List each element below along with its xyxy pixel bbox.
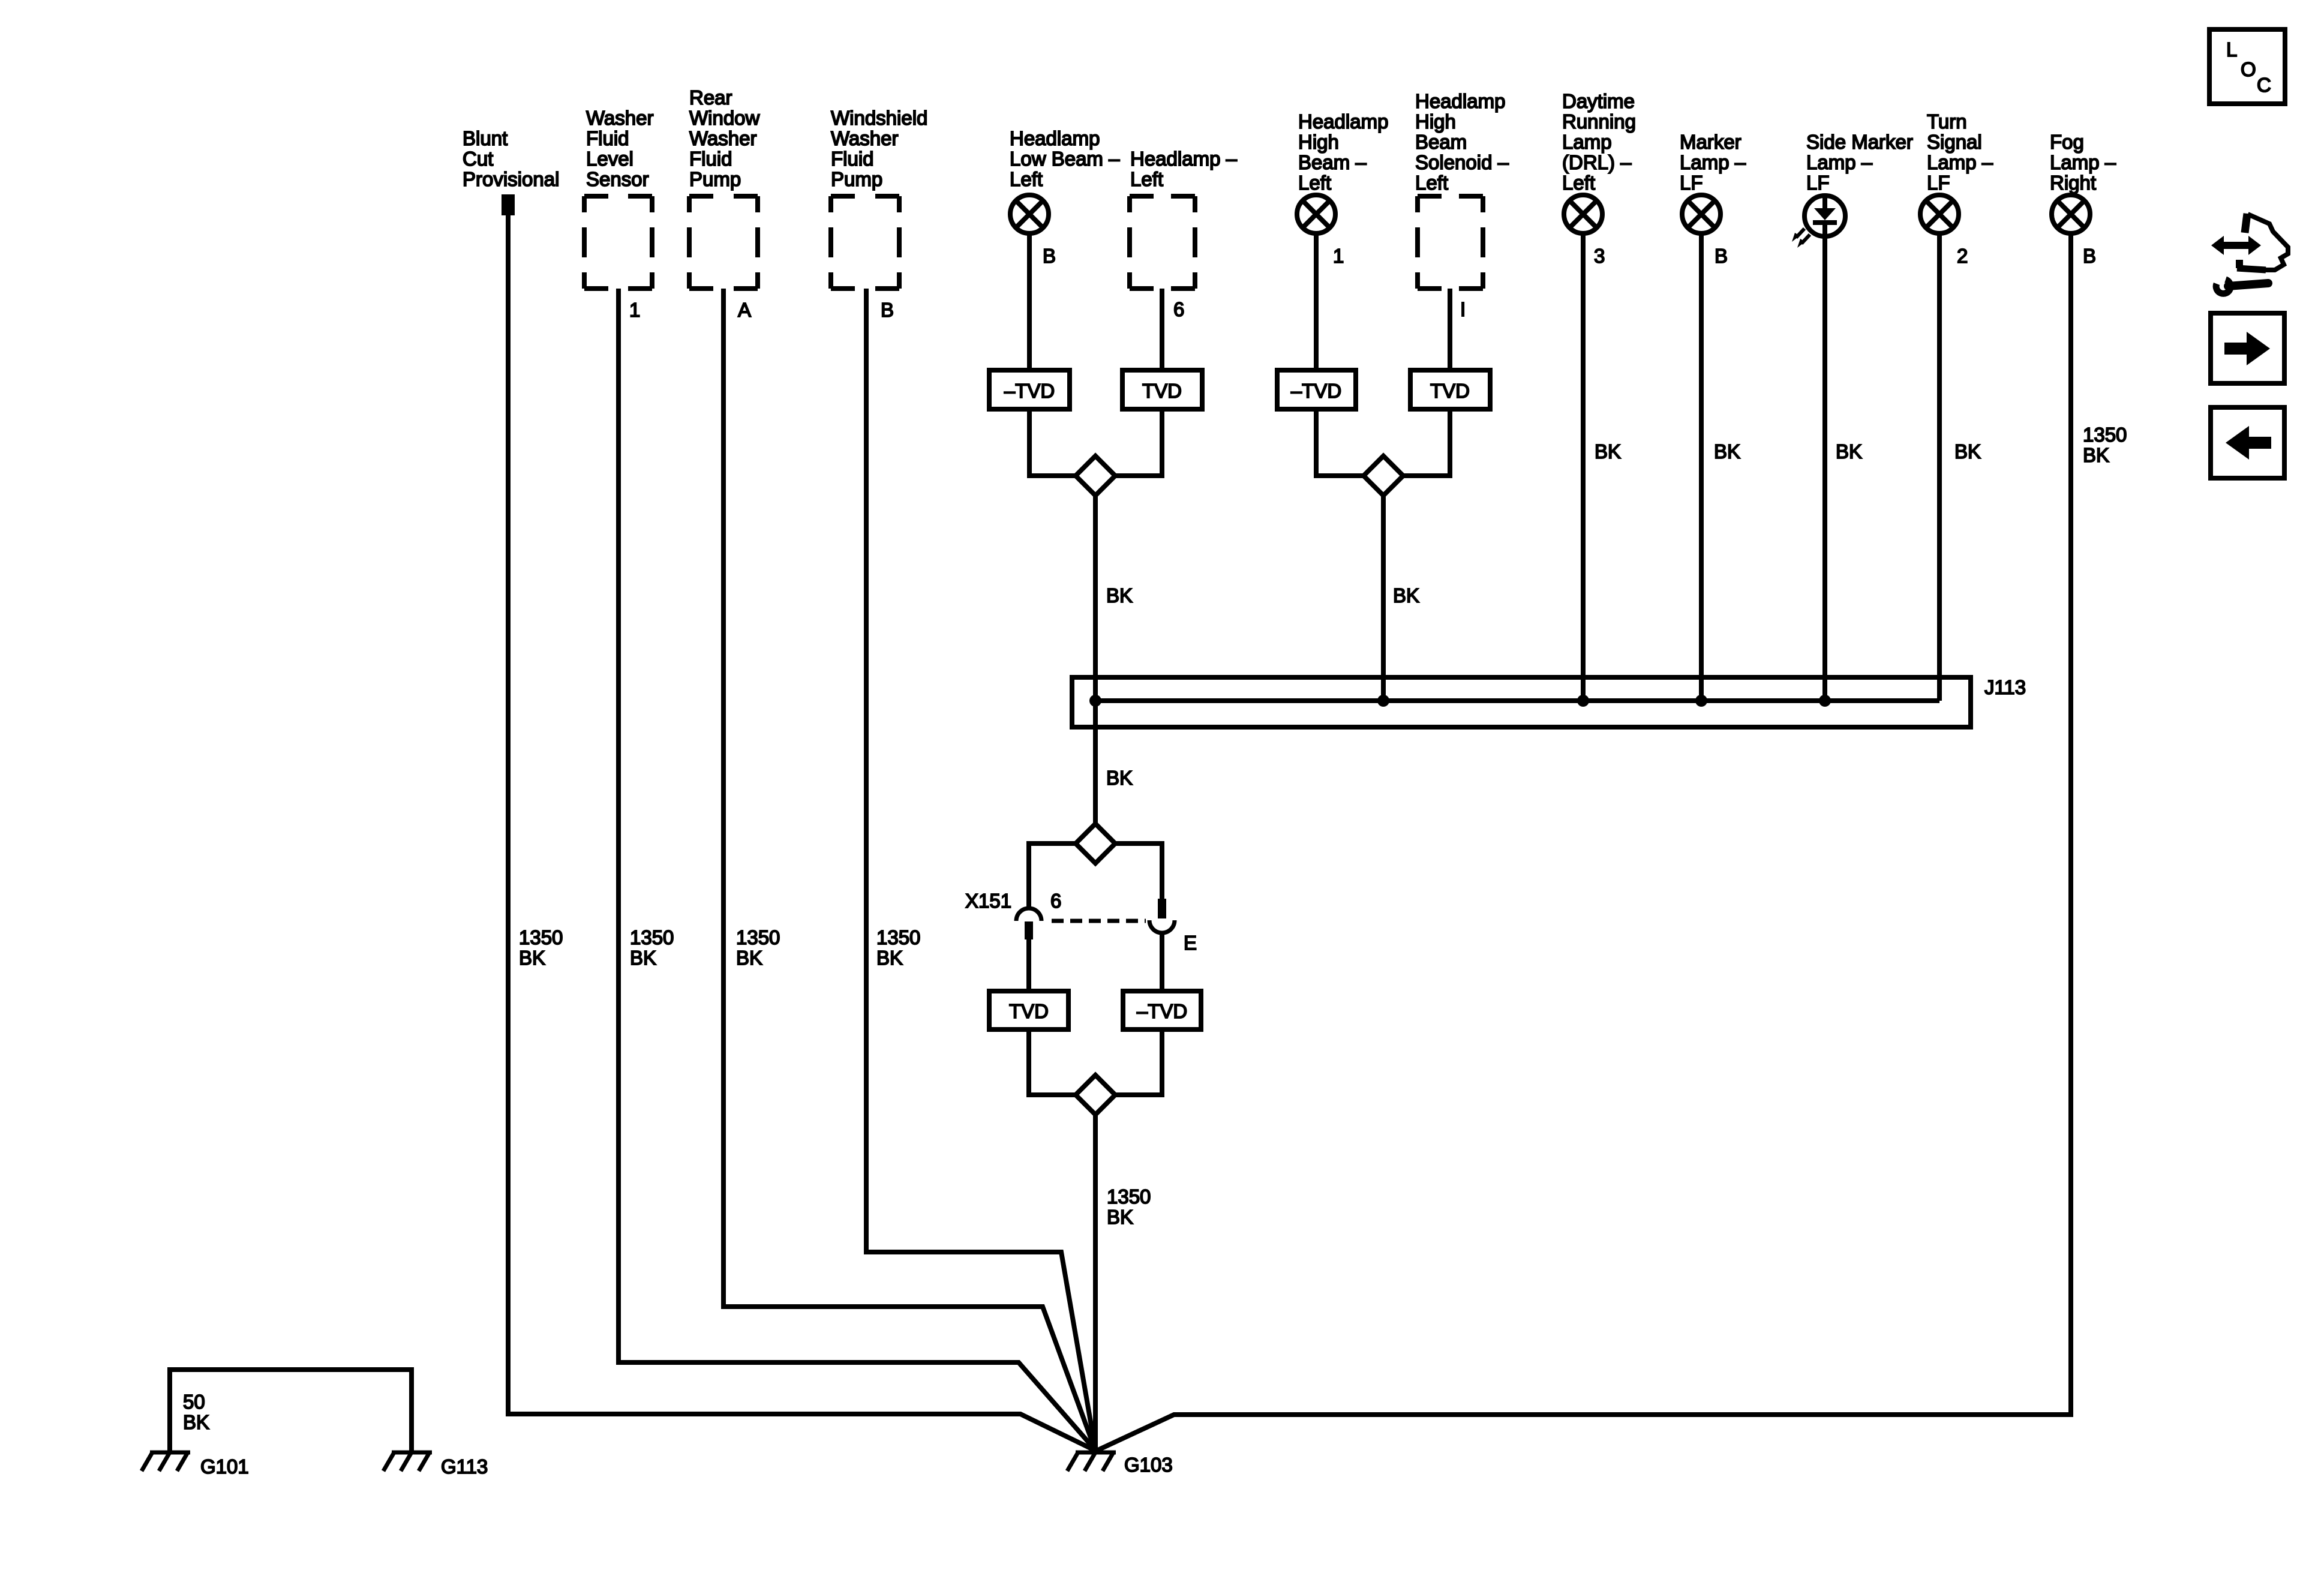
svg-text:Lamp –: Lamp – xyxy=(1806,151,1873,173)
back arrow box xyxy=(2211,407,2284,478)
svg-text:BK: BK xyxy=(1393,584,1419,607)
svg-text:TVD: TVD xyxy=(1430,380,1470,402)
lamp: side marker lamp LF (LED symbol) xyxy=(1804,196,1845,236)
label 1350 BK (washer sensor wire) xyxy=(630,926,674,969)
svg-text:BK: BK xyxy=(630,947,656,969)
device box TVD (solenoid) xyxy=(1410,370,1490,409)
blunt cut terminal symbol xyxy=(502,194,515,215)
lamp: daytime running lamp left xyxy=(1564,195,1602,233)
J113 internal bus xyxy=(1095,698,1939,703)
svg-text:LF: LF xyxy=(1927,172,1950,194)
svg-text:Left: Left xyxy=(1415,172,1448,194)
svg-text:1: 1 xyxy=(1333,245,1344,267)
svg-text:Signal: Signal xyxy=(1927,131,1982,153)
wire right arc to -TVD xyxy=(1160,933,1164,991)
svg-text:Cut: Cut xyxy=(463,148,493,170)
svg-text:O: O xyxy=(2241,58,2256,80)
wire TVD to bottom diamond xyxy=(1029,1029,1076,1095)
ground G103 symbol xyxy=(1067,1452,1116,1471)
svg-text:BK: BK xyxy=(1107,1206,1133,1228)
svg-text:BK: BK xyxy=(1595,440,1621,463)
junction dot (marker) xyxy=(1695,695,1707,707)
svg-text:Turn: Turn xyxy=(1927,110,1967,133)
junction dot (main wire) xyxy=(1089,695,1101,707)
svg-text:G103: G103 xyxy=(1124,1454,1173,1476)
svg-text:–TVD: –TVD xyxy=(1137,1000,1187,1022)
connector X151 right female half xyxy=(1149,920,1175,933)
svg-text:L: L xyxy=(2226,38,2237,61)
wire -TVD to splice diamond xyxy=(1029,409,1076,476)
LED emission arrows xyxy=(1792,229,1810,248)
wire diamond to J113 and X151 xyxy=(1093,496,1098,824)
label Turn Signal Lamp - LF xyxy=(1927,110,1993,194)
svg-text:Running: Running xyxy=(1562,110,1636,133)
device box TVD (lower left) xyxy=(989,991,1068,1029)
svg-text:Low Beam –: Low Beam – xyxy=(1010,148,1120,170)
wire G101 to G113 (50 BK) xyxy=(170,1370,412,1452)
wire TVD to splice diamond (high beam) xyxy=(1403,409,1450,476)
label Headlamp High Beam Solenoid - Left xyxy=(1415,90,1509,194)
svg-text:Left: Left xyxy=(1130,168,1163,190)
svg-text:6: 6 xyxy=(1173,298,1184,320)
wire diamond to left connector half xyxy=(1029,843,1076,907)
device box -TVD (high beam) xyxy=(1277,370,1356,409)
svg-text:1: 1 xyxy=(629,299,640,321)
service icon: double arrow xyxy=(2211,236,2261,255)
device box -TVD (low beam) xyxy=(989,370,1070,409)
svg-text:High: High xyxy=(1415,110,1456,133)
connector X151 left female half xyxy=(1016,908,1041,921)
svg-text:J113: J113 xyxy=(1984,676,2026,698)
svg-text:Pump: Pump xyxy=(689,168,741,190)
svg-text:Blunt: Blunt xyxy=(463,127,508,149)
svg-text:50: 50 xyxy=(183,1391,205,1413)
wire left pin to TVD xyxy=(1026,939,1031,991)
wire marker lamp to J113 xyxy=(1699,233,1704,701)
ground G101 symbol xyxy=(142,1452,190,1471)
wire solenoid to TVD xyxy=(1448,289,1452,370)
label Marker Lamp - LF xyxy=(1680,131,1746,194)
svg-text:B: B xyxy=(881,299,894,321)
svg-text:Beam: Beam xyxy=(1415,131,1467,153)
wire blunt-cut down xyxy=(508,215,1094,1450)
svg-text:Daytime: Daytime xyxy=(1562,90,1635,112)
wire lamp to -TVD xyxy=(1314,233,1319,370)
connector box: windshield washer fluid pump (dashed) xyxy=(831,196,899,289)
LOC legend box xyxy=(2209,29,2285,104)
lamp: marker lamp LF xyxy=(1682,195,1721,233)
svg-text:A: A xyxy=(738,299,751,321)
svg-text:Marker: Marker xyxy=(1680,131,1742,153)
svg-text:1350: 1350 xyxy=(876,926,920,948)
svg-text:Washer: Washer xyxy=(586,107,653,129)
connector X151 left male pin xyxy=(1025,921,1033,939)
svg-text:BK: BK xyxy=(1836,440,1862,463)
label 1350 BK (rear window pump wire) xyxy=(736,926,780,969)
wire fog lamp to ground G103 xyxy=(1097,233,2071,1451)
svg-text:Solenoid –: Solenoid – xyxy=(1415,151,1509,173)
svg-text:BK: BK xyxy=(736,947,762,969)
svg-text:1350: 1350 xyxy=(736,926,780,948)
svg-text:Provisional: Provisional xyxy=(463,168,559,190)
svg-text:BK: BK xyxy=(1106,584,1133,607)
svg-text:TVD: TVD xyxy=(1142,380,1182,402)
wire -TVD to splice diamond (high beam) xyxy=(1316,409,1364,476)
svg-text:Headlamp: Headlamp xyxy=(1298,110,1388,133)
label Headlamp High Beam - Left xyxy=(1298,110,1388,194)
connector X151 right male pin xyxy=(1158,899,1166,918)
svg-text:1350: 1350 xyxy=(2083,424,2127,446)
label Fog Lamp - Right xyxy=(2050,131,2116,194)
splice pack J113 box xyxy=(1072,677,1971,727)
svg-text:LF: LF xyxy=(1806,172,1830,194)
wire DRL to J113 xyxy=(1581,233,1586,701)
svg-text:Washer: Washer xyxy=(831,127,898,149)
service icon: body outline xyxy=(2248,214,2288,270)
svg-text:Left: Left xyxy=(1562,172,1595,194)
svg-text:Headlamp: Headlamp xyxy=(1010,127,1100,149)
svg-text:Headlamp: Headlamp xyxy=(1415,90,1505,112)
label Blunt Cut Provisional xyxy=(463,127,559,190)
splice diamond (high beam group) xyxy=(1364,456,1403,496)
wire side marker to J113 xyxy=(1822,236,1827,701)
svg-text:Left: Left xyxy=(1298,172,1331,194)
svg-text:B: B xyxy=(1715,245,1728,267)
label Rear Window Washer Fluid Pump xyxy=(689,86,760,190)
svg-text:I: I xyxy=(1460,298,1466,320)
service icon: stub xyxy=(2245,214,2247,233)
wire diamond to right connector half xyxy=(1115,843,1162,899)
svg-text:Lamp: Lamp xyxy=(1562,131,1612,153)
svg-text:BK: BK xyxy=(183,1411,209,1433)
wire washer sensor to ground xyxy=(618,289,1095,1449)
svg-text:Rear: Rear xyxy=(689,86,732,109)
svg-text:Fluid: Fluid xyxy=(586,127,629,149)
svg-text:Lamp –: Lamp – xyxy=(1927,151,1993,173)
svg-text:G113: G113 xyxy=(441,1455,488,1478)
svg-text:BK: BK xyxy=(1714,440,1740,463)
svg-text:–TVD: –TVD xyxy=(1004,380,1055,402)
lamp: headlamp high beam left xyxy=(1297,195,1335,233)
svg-text:3: 3 xyxy=(1594,245,1605,267)
label Side Marker Lamp - LF xyxy=(1806,131,1913,194)
svg-text:2: 2 xyxy=(1957,245,1968,267)
svg-text:E: E xyxy=(1184,932,1197,954)
svg-text:Fluid: Fluid xyxy=(831,148,874,170)
service icon: tooth xyxy=(2236,260,2243,268)
svg-text:Headlamp –: Headlamp – xyxy=(1130,148,1238,170)
svg-text:–TVD: –TVD xyxy=(1291,380,1341,402)
svg-text:Left: Left xyxy=(1010,168,1043,190)
lamp: fog lamp right xyxy=(2052,195,2090,233)
connector mate dashed line xyxy=(1052,919,1146,923)
svg-text:C: C xyxy=(2257,74,2271,96)
connector box: rear window washer fluid pump (dashed) xyxy=(689,196,758,289)
svg-text:1350: 1350 xyxy=(519,926,563,948)
svg-text:Beam –: Beam – xyxy=(1298,151,1367,173)
svg-text:Window: Window xyxy=(689,107,760,129)
svg-text:X151: X151 xyxy=(965,890,1011,912)
wire headlamp-left to TVD xyxy=(1160,289,1164,370)
svg-text:G101: G101 xyxy=(200,1455,249,1478)
ground G113 symbol xyxy=(383,1452,432,1471)
label 1350 BK (fog lamp wire) xyxy=(2083,424,2127,466)
splice diamond (bottom) xyxy=(1076,1075,1115,1115)
svg-text:BK: BK xyxy=(876,947,903,969)
junction dot (high beam) xyxy=(1377,695,1389,707)
svg-text:TVD: TVD xyxy=(1009,1000,1049,1022)
svg-text:Fog: Fog xyxy=(2050,131,2084,153)
svg-text:Side Marker: Side Marker xyxy=(1806,131,1913,153)
label 1350 BK (windshield pump wire) xyxy=(876,926,920,969)
wire windshield pump to ground xyxy=(866,289,1095,1449)
service icon: wrench xyxy=(2216,280,2268,293)
connector box: headlamp left (dashed) xyxy=(1130,196,1195,289)
svg-text:Fluid: Fluid xyxy=(689,148,732,170)
label 50 BK xyxy=(183,1391,209,1433)
label Washer Fluid Level Sensor xyxy=(586,107,653,190)
svg-text:Lamp –: Lamp – xyxy=(1680,151,1746,173)
svg-text:BK: BK xyxy=(2083,444,2109,466)
device box TVD (headlamp left) xyxy=(1122,370,1202,409)
svg-text:Right: Right xyxy=(2050,172,2096,194)
service icon: lower jaw xyxy=(2237,268,2266,270)
svg-text:BK: BK xyxy=(1106,767,1133,789)
junction dot (side marker) xyxy=(1819,695,1831,707)
device box -TVD (lower right) xyxy=(1123,991,1201,1029)
svg-text:High: High xyxy=(1298,131,1339,153)
svg-text:B: B xyxy=(1043,245,1056,267)
svg-text:Windshield: Windshield xyxy=(831,107,927,129)
svg-text:Level: Level xyxy=(586,148,633,170)
svg-text:B: B xyxy=(2083,245,2096,267)
label 1350 BK (ground wire) xyxy=(1107,1185,1151,1228)
connector box: high beam solenoid (dashed) xyxy=(1418,196,1483,289)
label 1350 BK (blunt cut wire) xyxy=(519,926,563,969)
wire rear window pump to ground xyxy=(723,289,1095,1449)
svg-text:BK: BK xyxy=(519,947,545,969)
wire diamond to ground G103 xyxy=(1093,1115,1098,1451)
lamp: headlamp low beam left xyxy=(1010,195,1049,233)
forward arrow box xyxy=(2211,313,2284,383)
svg-text:1350: 1350 xyxy=(630,926,674,948)
svg-text:LF: LF xyxy=(1680,172,1703,194)
svg-text:Sensor: Sensor xyxy=(586,168,649,190)
svg-text:Washer: Washer xyxy=(689,127,756,149)
label Daytime Running Lamp (DRL) - Left xyxy=(1562,90,1636,194)
label Headlamp - Left xyxy=(1130,148,1238,190)
connector box: washer fluid level sensor (dashed) xyxy=(584,196,652,289)
svg-text:(DRL) –: (DRL) – xyxy=(1562,151,1632,173)
splice diamond (low beam group) xyxy=(1076,456,1115,496)
svg-text:BK: BK xyxy=(1954,440,1981,463)
label Windshield Washer Fluid Pump xyxy=(831,107,927,190)
wire -TVD to bottom diamond xyxy=(1115,1029,1162,1095)
wire lamp to -TVD xyxy=(1027,233,1032,370)
svg-text:6: 6 xyxy=(1050,890,1061,912)
svg-text:Pump: Pump xyxy=(831,168,882,190)
splice diamond (top of X151 group) xyxy=(1076,824,1115,863)
svg-text:1350: 1350 xyxy=(1107,1185,1151,1208)
wire turn signal to J113 xyxy=(1937,233,1942,701)
wire TVD to splice diamond xyxy=(1115,409,1162,476)
label Headlamp Low Beam - Left xyxy=(1010,127,1120,190)
junction dot (DRL) xyxy=(1577,695,1589,707)
svg-text:Lamp –: Lamp – xyxy=(2050,151,2116,173)
wire diamond to J113 xyxy=(1381,496,1386,701)
lamp: turn signal lamp LF xyxy=(1920,195,1959,233)
